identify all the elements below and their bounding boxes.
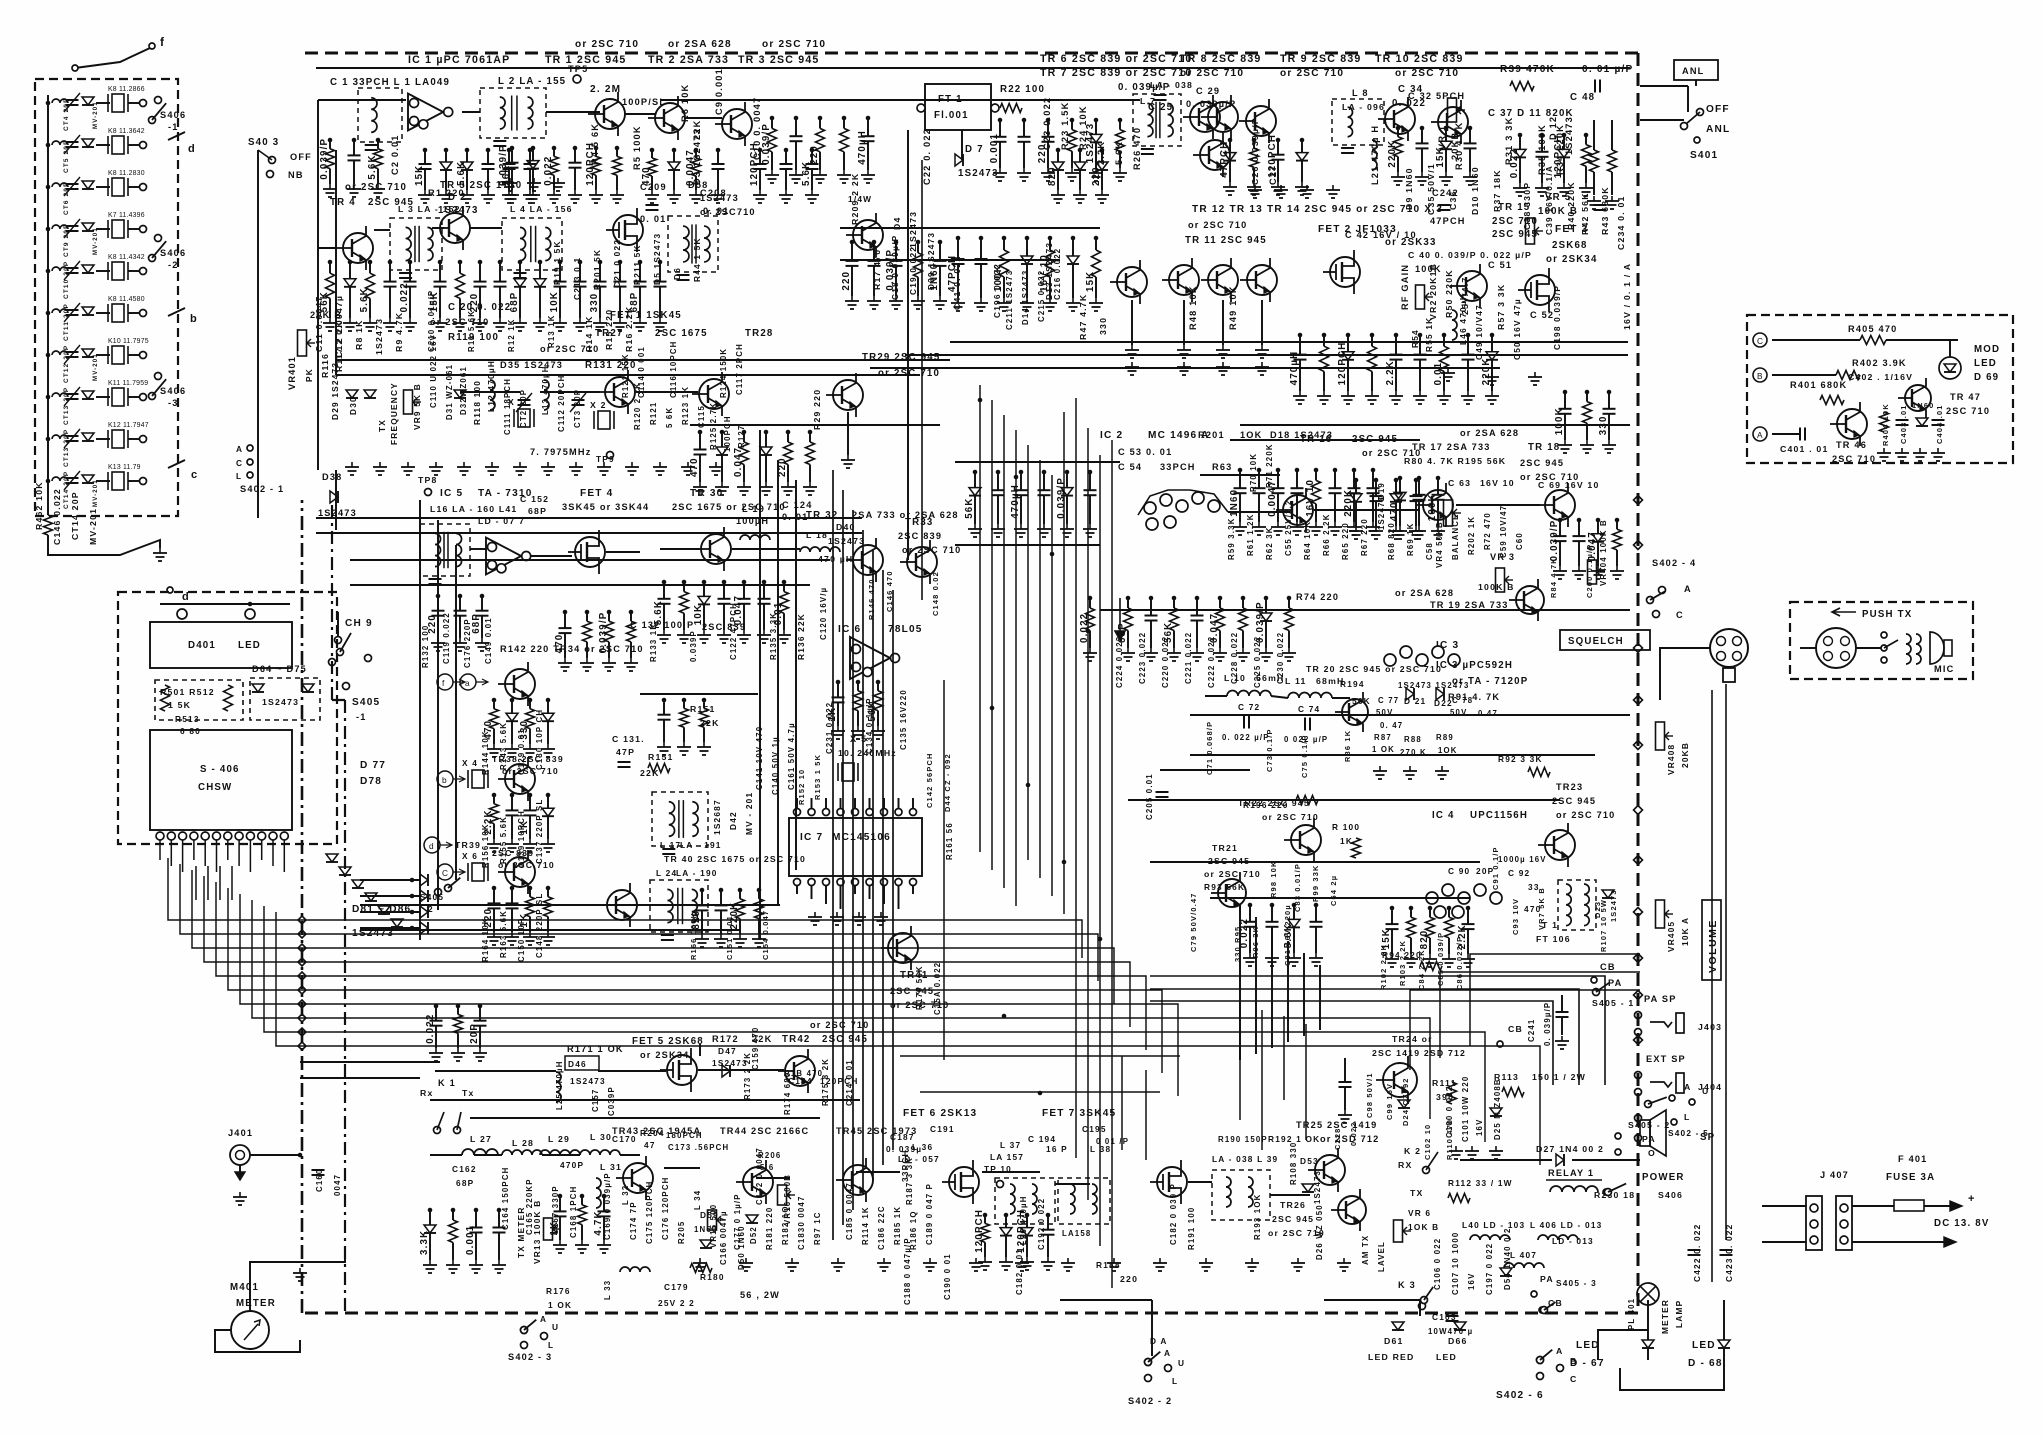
meter wires [250,1250,345,1311]
svg-text:L 17: L 17 [660,840,681,850]
FET2 [1330,257,1360,287]
wire ANL [1695,80,1697,86]
svg-text:C 29: C 29 [1196,86,1220,96]
svg-text:L46 470µH: L46 470µH [1458,293,1468,345]
svg-text:C161 50V 4.7µ: C161 50V 4.7µ [787,722,796,790]
svg-text:820: 820 [1047,166,1058,186]
trimmer CT9 20P [46,227,51,232]
svg-text:R63: R63 [1212,462,1232,472]
svg-text:or 2SK34: or 2SK34 [1546,254,1598,265]
capacitor string 4 [1371,335,1373,346]
main outer dashed border right [1637,53,1640,1313]
svg-text:a: a [465,678,471,688]
svg-text:L 11: L 11 [1285,676,1307,686]
svg-text:D - 68: D - 68 [1688,1358,1723,1369]
capacitor string 2 [532,148,534,161]
svg-text:2SC 710: 2SC 710 [1946,406,1990,416]
svg-text:LED RED: LED RED [1368,1352,1415,1362]
osc wires [336,359,950,361]
svg-text:C: C [1570,1374,1577,1384]
transistor TR18 [1545,490,1575,520]
varicap diode D106 [82,307,94,315]
svg-text:2SC 839: 2SC 839 [702,622,746,632]
svg-text:100K: 100K [1415,264,1442,274]
svg-text:J 407: J 407 [1820,1170,1849,1180]
svg-text:L 32: L 32 [621,1185,630,1205]
capacitor string 3 [1003,238,1005,250]
svg-text:L21 470µ H: L21 470µ H [1370,125,1380,185]
svg-text:C119 0.022: C119 0.022 [442,612,451,664]
channel switch S406-2 [149,255,156,262]
transistor TR2 [655,103,685,133]
transistor TR39 [505,857,535,887]
bottom connection wires [1324,1299,1420,1301]
svg-text:C 194: C 194 [1028,1134,1056,1144]
svg-text:TR28: TR28 [745,328,774,339]
svg-text:VR 6: VR 6 [1408,1208,1431,1218]
capacitor string 3 [603,1196,605,1211]
capacitor string 4 [758,890,760,899]
svg-text:R187 3 3K: R187 3 3K [905,1157,914,1205]
svg-text:R57 3 3K: R57 3 3K [1496,284,1506,330]
capacitor string 4 [547,700,549,713]
L8 LA-096 transformer [1332,99,1384,145]
svg-text:20P: 20P [469,1023,480,1044]
svg-text:120PCH: 120PCH [1016,1209,1027,1253]
capacitor string 1 [1239,470,1241,488]
gnd meter [299,1268,301,1273]
svg-text:VR13 100K B: VR13 100K B [532,1200,542,1264]
capacitor string 6 [809,432,811,442]
svg-text:10K: 10K [549,291,560,312]
svg-text:R188: R188 [1096,1260,1121,1270]
svg-text:C130 10P CH: C130 10P CH [535,709,544,770]
capacitor string 1 [429,1210,431,1225]
fill verticals staircase to TX [1239,905,1241,1060]
transistor TR30 [701,534,731,564]
svg-text:0.039/P: 0.039/P [598,612,609,654]
wire bottom long [430,1099,860,1101]
svg-text:R8 1K: R8 1K [354,319,364,350]
capacitor string 3 [739,890,741,899]
svg-text:or 2SC 710: or 2SC 710 [1556,810,1616,820]
svg-text:C91 0.1/P: C91 0.1/P [1491,846,1500,890]
svg-text:C174 7P: C174 7P [629,1201,638,1240]
svg-text:2SC 1675: 2SC 1675 [655,328,708,339]
L7 LA-038 transformer [1133,94,1181,146]
VR9 pot [404,390,413,414]
capacitor string 4 [1047,1215,1049,1230]
svg-text:X 2: X 2 [590,400,607,410]
svg-text:L 29: L 29 [548,1134,570,1144]
capacitor string 1 [651,150,653,158]
svg-text:R97 1C: R97 1C [813,1211,822,1245]
svg-text:1S2473: 1S2473 [374,318,384,355]
svg-text:C71 0.068/P: C71 0.068/P [1205,721,1214,775]
transistor TR27 [605,377,635,407]
R501-R512 resistor pack [155,680,243,720]
long verticals feed [907,130,909,560]
capacitor string 3 [1347,335,1349,352]
svg-text:R201: R201 [1198,430,1225,440]
mic transformer [1906,634,1911,664]
svg-text:C211 1S2473: C211 1S2473 [1005,270,1014,330]
svg-text:D52: D52 [749,1226,758,1244]
capacitor string 4 [1071,120,1073,130]
svg-text:C117 2PCH: C117 2PCH [735,343,744,395]
svg-text:MC145106: MC145106 [832,832,891,843]
TR46 transistor [1837,409,1867,439]
capacitor string 4 [1043,472,1045,490]
capacitor string 8 [1288,598,1290,608]
svg-text:2. 2M: 2. 2M [590,84,621,95]
svg-text:C 90: C 90 [1448,866,1470,876]
capacitor string 1 [439,262,441,282]
capacitor string 2 [1375,480,1377,496]
svg-text:C224 0.022: C224 0.022 [1115,636,1124,688]
DC 13.8V arrow [1950,1201,1962,1211]
svg-text:TR 9 2SC 839: TR 9 2SC 839 [1280,53,1362,65]
capacitor string 4 [1616,520,1618,529]
top band rail2 [660,99,925,101]
trimmer CT11 20P [46,311,51,316]
fill right midband horizontals [1190,714,1630,716]
svg-text:0.022: 0.022 [1509,148,1520,178]
input transformer L1 [358,88,402,142]
svg-text:R98 10K: R98 10K [1269,860,1278,898]
squelch filter grounds [1379,766,1381,771]
svg-text:16V 10: 16V 10 [1480,478,1515,488]
capacitor string 2 [457,1006,459,1014]
svg-text:1S2473: 1S2473 [958,168,999,179]
transistor TR28 [699,379,729,409]
svg-text:TP8: TP8 [418,475,438,485]
svg-text:IC 4: IC 4 [1432,810,1455,821]
svg-text:L 407: L 407 [1510,1250,1537,1260]
svg-text:C112 20PCH: C112 20PCH [557,374,566,432]
transistor TR19 [1516,586,1544,614]
svg-text:CT10 20P: CT10 20P [63,261,70,299]
grounds TX row [699,1258,701,1263]
svg-text:IC 6: IC 6 [838,624,861,635]
svg-text:TX: TX [1410,1188,1424,1198]
capacitor string 5 [1095,120,1097,134]
svg-text:R99 33K: R99 33K [1311,864,1320,902]
svg-text:R69 1K: R69 1K [1406,522,1415,556]
svg-text:C: C [1676,610,1684,620]
svg-text:20K B: 20K B [310,310,342,320]
svg-text:C: C [1757,336,1764,346]
capacitor string 4 [1296,470,1298,488]
svg-text:LA 157: LA 157 [990,1152,1024,1162]
transistor TR22 [1291,825,1321,855]
svg-text:MIC: MIC [1934,664,1954,674]
svg-text:METER: METER [236,1298,276,1309]
capacitor string 4 [1315,905,1317,922]
svg-text:C234 0. 01: C234 0. 01 [1616,195,1626,250]
svg-text:R5 100K: R5 100K [632,125,642,170]
svg-text:OFF: OFF [290,152,312,162]
svg-text:C 1 33PCH L 1 LA049: C 1 33PCH L 1 LA049 [330,77,450,88]
svg-text:R66 2.2K: R66 2.2K [1322,513,1331,556]
svg-text:S405 - 3: S405 - 3 [1556,1278,1597,1288]
VR6 10KB [1394,1220,1403,1242]
capacitor string 2 [857,682,859,691]
svg-text:R68 820: R68 820 [1387,522,1396,560]
D38 wire [335,470,337,530]
svg-text:120PCH: 120PCH [1553,134,1564,178]
svg-text:CT5 20P: CT5 20P [63,139,70,173]
capacitor string 5 [1315,470,1317,480]
capacitor string 6 [1419,335,1421,355]
C234 0.01 [1594,204,1607,206]
capacitor string 2 [1578,520,1580,536]
capacitor string 6 [529,150,531,164]
svg-text:C 52: C 52 [1530,310,1554,320]
capacitor string 1 [559,1196,561,1211]
C228 0.022 string [1344,1058,1346,1082]
crystal K8 11.3642 [96,144,110,146]
svg-text:C 74: C 74 [1298,704,1320,714]
diode pack D64-D75 [250,678,320,720]
svg-text:L 8: L 8 [1352,88,1369,98]
svg-text:D30: D30 [348,396,358,415]
svg-text:or 2SC 710: or 2SC 710 [540,344,600,354]
svg-text:IC 1 µPC 7061AP: IC 1 µPC 7061AP [408,54,510,66]
op-amp IC1 [408,94,443,131]
svg-text:120PCH: 120PCH [974,1209,985,1253]
svg-text:R93 56K: R93 56K [1204,882,1245,892]
svg-text:L: L [236,471,242,481]
capacitor string 4 [723,582,725,599]
svg-text:FET 7 3SK45: FET 7 3SK45 [1042,1108,1116,1119]
svg-text:R80 4. 7K R195 56K: R80 4. 7K R195 56K [1404,456,1506,466]
capacitor string 4 [1585,135,1587,145]
capacitor string 3 [819,118,821,128]
capacitor string 1 [493,700,495,709]
mid horizontals left [350,559,830,561]
svg-text:C50 16V 47µ: C50 16V 47µ [1512,298,1522,360]
svg-text:C 131.: C 131. [612,734,645,744]
svg-text:L40 LD - 103: L40 LD - 103 [1462,1220,1525,1230]
op-amp IC6 [850,637,890,679]
svg-text:+: + [1968,1193,1976,1205]
svg-text:NB: NB [288,170,304,180]
capacitor string 4 [843,118,845,128]
svg-text:K8 11.4580: K8 11.4580 [108,296,145,303]
svg-text:CT6 20P: CT6 20P [63,181,70,215]
svg-text:or 2SC 710: or 2SC 710 [1395,68,1459,79]
svg-text:CH 9: CH 9 [345,618,373,629]
capacitor string 1 [851,242,853,261]
capacitor string 2 [795,118,797,136]
svg-text:C223 0.022: C223 0.022 [1138,632,1147,684]
svg-text:R151: R151 [648,752,674,762]
varicap diode D105 [82,265,94,273]
svg-text:TX: TX [377,419,387,432]
svg-text:C 54: C 54 [1118,462,1142,472]
svg-text:O: O [1648,1148,1656,1158]
wires midband ic5 [470,548,486,550]
svg-text:CB: CB [1508,1024,1523,1034]
crystal K8 11.4580 [96,312,110,314]
svg-text:15K: 15K [414,165,425,186]
svg-text:C241: C241 [1527,1019,1536,1042]
capacitor string 4 [1026,238,1028,256]
svg-text:Rx: Rx [420,1088,434,1098]
svg-text:TR 4: TR 4 [330,197,356,208]
fet5 wires [435,1070,556,1072]
capacitor string 3 [895,242,897,261]
svg-text:SQUELCH: SQUELCH [1568,636,1624,647]
varicap diode D108 [82,391,94,399]
capacitor string 6 [539,262,541,279]
svg-text:2.2K: 2.2K [1385,360,1396,385]
svg-text:22K: 22K [700,718,720,728]
svg-text:A: A [1757,430,1764,440]
trimmer CT13 20P [46,395,51,400]
transistor TR34 [505,669,535,699]
svg-text:or 2SA 628: or 2SA 628 [1460,428,1519,438]
capacitor string 2 [1271,905,1273,922]
VOLUME box [1702,900,1721,980]
svg-text:C168 1PCH: C168 1PCH [569,1186,578,1238]
svg-text:C86 0.022/P: C86 0.022/P [1455,936,1464,990]
svg-text:D61: D61 [1384,1336,1404,1346]
transistor TR10 [1385,104,1415,134]
svg-text:FT 1: FT 1 [938,94,963,105]
varicap diode D1010 [82,475,94,483]
svg-text:R13 1K: R13 1K [547,314,556,348]
svg-text:LAMP: LAMP [1674,1300,1684,1328]
svg-text:L 19: L 19 [742,504,765,514]
wire top mid [760,99,1140,101]
svg-text:C73 0.1/P: C73 0.1/P [1265,728,1274,772]
capacitor string 1 [1391,908,1393,924]
capacitor string 1 [435,1006,437,1021]
svg-text:330: 330 [589,293,600,313]
capacitor string 3 [743,432,745,442]
TX bottom wires [430,1154,462,1156]
PUSH TX label [1832,608,1856,616]
capacitor string 3 [1608,392,1610,409]
grounds row1 [509,178,511,183]
capacitor string 3 [1277,470,1279,488]
svg-text:R59 3.3K: R59 3.3K [1227,517,1236,560]
capacitor string 7 [1443,335,1445,346]
svg-text:5.6K: 5.6K [1114,141,1124,165]
J407 feed wires [1762,1205,1806,1207]
svg-text:D 2: D 2 [448,192,467,203]
svg-text:C11 0.0047: C11 0.0047 [314,296,324,352]
svg-text:C75 0.1/P: C75 0.1/P [1300,734,1309,778]
svg-text:C175 120PCH: C175 120PCH [645,1181,654,1244]
svg-text:56K: 56K [964,497,975,518]
svg-text:or 2SA 628: or 2SA 628 [1395,588,1454,598]
capacitor string 4 [1415,480,1417,496]
svg-text:D10 1N60: D10 1N60 [1470,166,1480,215]
capacitor string 6 [763,582,765,599]
svg-text:R211 5K: R211 5K [632,244,642,285]
svg-text:U: U [1702,1086,1709,1096]
svg-text:K12 11.7947: K12 11.7947 [108,422,149,429]
wires IC1 cluster [318,99,406,101]
svg-text:R39 470K: R39 470K [1500,64,1555,75]
wires band2 right [840,227,1100,229]
svg-text:C198 0.039/P: C198 0.039/P [1552,285,1562,350]
svg-text:S402 - 2: S402 - 2 [1128,1396,1172,1406]
capacitor string 1 [1229,140,1231,153]
svg-text:Tx: Tx [462,1088,475,1098]
svg-text:LED: LED [1576,1340,1600,1351]
svg-text:C209: C209 [640,182,667,192]
FET3 [1525,275,1555,305]
capacitor string 3 [553,148,555,156]
long rail upper mid [316,517,862,519]
capacitor string 2 [445,150,447,162]
R42 R43 strings [1593,120,1595,150]
capacitor string 5 [409,262,411,282]
svg-text:UPC1156H: UPC1156H [1470,810,1528,821]
svg-text:470 µH: 470 µH [818,554,853,564]
svg-text:C173 .56PCH: C173 .56PCH [668,1143,729,1152]
svg-text:1000µ 16V: 1000µ 16V [1498,855,1547,864]
svg-text:0. 47: 0. 47 [1380,721,1403,730]
svg-text:R49 10K: R49 10K [1228,285,1238,330]
capacitor string 2 [1323,335,1325,346]
capacitor string 3 [479,1006,481,1021]
svg-text:2SC 945: 2SC 945 [1272,1214,1314,1224]
transistor TR21 [1218,879,1246,907]
SQUELCH box [1560,630,1650,650]
svg-text:C176 220P: C176 220P [463,618,472,668]
svg-text:BALANCE: BALANCE [1451,513,1460,560]
capacitor string 8 [1467,335,1469,355]
svg-text:25V 2 2: 25V 2 2 [658,1298,695,1308]
svg-text:C60: C60 [1515,532,1524,550]
svg-text:0. 01: 0. 01 [640,214,666,224]
svg-text:470: 470 [1524,904,1541,914]
svg-text:0.022: 0.022 [543,156,554,186]
svg-text:R135 3.3K: R135 3.3K [769,612,778,660]
svg-text:C164 150PCH: C164 150PCH [501,1167,510,1230]
svg-text:S406: S406 [160,248,186,258]
capacitor string 2 [1541,135,1543,152]
capacitor string 1 [974,472,976,488]
capacitor string 3 [369,262,371,273]
terminal C [1753,333,1767,347]
svg-text:or 2SC 710: or 2SC 710 [345,182,407,193]
transistors TR12-14 [1169,265,1199,295]
capacitor string 7 [559,262,561,282]
svg-text:D47: D47 [718,1046,737,1056]
capacitor string 9 [1491,335,1493,352]
svg-text:C 42 16V / 10: C 42 16V / 10 [1345,230,1417,240]
svg-text:L 10: L 10 [1224,673,1246,683]
capacitor string 3 [811,150,813,164]
svg-text:6 80: 6 80 [180,726,201,736]
svg-text:C115: C115 [697,405,706,428]
capacitor string 1 [1057,150,1059,162]
transistor TR1 [595,99,625,129]
svg-text:LA - 038: LA - 038 [1150,80,1193,90]
diode matrix D81-D86 [326,854,338,862]
svg-text:1 OK: 1 OK [548,1300,572,1310]
svg-text:100K: 100K [1554,407,1565,435]
svg-text:16V: 16V [1475,1119,1484,1136]
capacitor string 3 [639,262,641,282]
svg-text:S405 - 1: S405 - 1 [1592,998,1634,1008]
